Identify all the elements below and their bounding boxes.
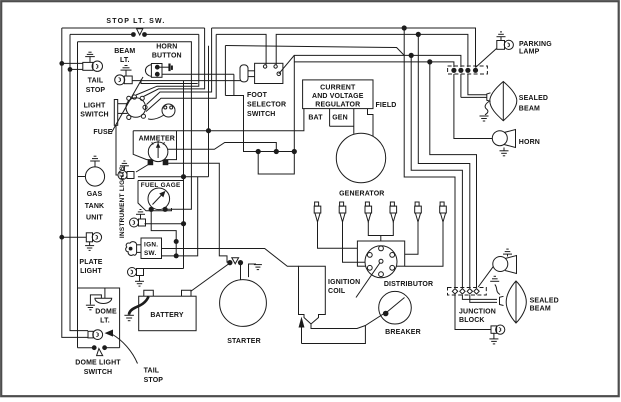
svg-text:LIGHT: LIGHT — [84, 103, 106, 110]
svg-text:FOOT: FOOT — [247, 92, 268, 99]
svg-text:PARKING: PARKING — [519, 41, 552, 48]
svg-text:IGN.: IGN. — [144, 242, 158, 249]
svg-text:IGNITION: IGNITION — [328, 279, 360, 286]
svg-text:SW.: SW. — [144, 250, 157, 257]
svg-text:SELECTOR: SELECTOR — [247, 101, 286, 108]
svg-text:UNIT: UNIT — [86, 215, 104, 222]
svg-text:LT.: LT. — [120, 57, 130, 64]
svg-text:BUTTON: BUTTON — [152, 53, 182, 60]
svg-text:GEN: GEN — [332, 114, 348, 121]
svg-text:AND VOLTAGE: AND VOLTAGE — [312, 93, 364, 100]
svg-text:FIELD: FIELD — [376, 102, 397, 109]
svg-text:CURRENT: CURRENT — [320, 85, 356, 92]
svg-text:SEALED: SEALED — [519, 95, 548, 102]
svg-text:REGULATOR: REGULATOR — [315, 102, 360, 109]
svg-text:STOP LT. SW.: STOP LT. SW. — [106, 18, 165, 25]
svg-text:PLATE: PLATE — [79, 259, 102, 266]
svg-text:LT.: LT. — [100, 318, 110, 325]
svg-text:JUNCTION: JUNCTION — [459, 309, 496, 316]
svg-text:SWITCH: SWITCH — [247, 111, 276, 118]
svg-text:BLOCK: BLOCK — [459, 317, 485, 324]
svg-text:TANK: TANK — [85, 203, 105, 210]
svg-text:BEAM: BEAM — [530, 306, 551, 313]
svg-text:SEALED: SEALED — [530, 298, 559, 305]
svg-text:STOP: STOP — [86, 87, 106, 94]
svg-text:FUSE: FUSE — [93, 129, 112, 136]
svg-text:TAIL: TAIL — [88, 78, 104, 85]
svg-text:LIGHT: LIGHT — [80, 268, 102, 275]
svg-text:HORN: HORN — [156, 44, 177, 51]
svg-text:HORN: HORN — [519, 139, 540, 146]
svg-text:STARTER: STARTER — [227, 338, 261, 345]
svg-text:TAIL: TAIL — [144, 368, 160, 375]
svg-text:AMMETER: AMMETER — [139, 136, 175, 143]
svg-text:BAT: BAT — [308, 114, 323, 121]
svg-text:SWITCH: SWITCH — [80, 112, 109, 119]
svg-text:BEAM: BEAM — [114, 48, 135, 55]
svg-text:SWITCH: SWITCH — [84, 369, 113, 376]
svg-text:DISTRIBUTOR: DISTRIBUTOR — [384, 281, 433, 288]
svg-text:COIL: COIL — [328, 288, 346, 295]
svg-text:BREAKER: BREAKER — [385, 329, 421, 336]
svg-text:BATTERY: BATTERY — [150, 312, 184, 319]
svg-text:BEAM: BEAM — [519, 105, 540, 112]
svg-text:LAMP: LAMP — [519, 48, 540, 55]
svg-text:DOME LIGHT: DOME LIGHT — [75, 360, 121, 367]
svg-text:GENERATOR: GENERATOR — [339, 191, 384, 198]
svg-text:FUEL GAGE: FUEL GAGE — [141, 182, 181, 189]
svg-text:GAS: GAS — [87, 191, 103, 198]
svg-text:STOP: STOP — [144, 377, 164, 384]
svg-text:DOME: DOME — [95, 309, 117, 316]
